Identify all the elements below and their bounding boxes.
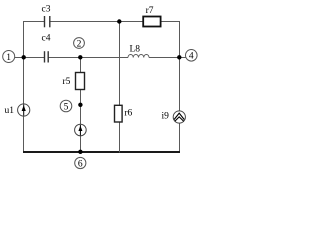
wire bottom rail xyxy=(23,151,180,153)
svg-text:r6: r6 xyxy=(124,108,132,118)
voltage source 2 (between node5 and node6) xyxy=(75,124,87,136)
wire r5 branch upper xyxy=(80,58,82,73)
svg-text:5: 5 xyxy=(64,102,69,112)
node B junction dot at node2 xyxy=(78,55,82,59)
node A junction dot at node1 rail xyxy=(22,55,26,59)
resistor R7 xyxy=(143,6,160,27)
wire r5 branch middle xyxy=(80,90,82,125)
capacitor C3 xyxy=(42,5,51,28)
node 2 xyxy=(74,38,85,50)
node 5 xyxy=(60,100,72,112)
capacitor C4 xyxy=(42,34,51,63)
svg-text:c4: c4 xyxy=(42,34,51,44)
node 4 xyxy=(186,50,198,62)
svg-text:4: 4 xyxy=(189,52,194,62)
wire r5 branch lower xyxy=(80,136,82,153)
wire left rail upper xyxy=(23,21,25,104)
wire main line L8 to node4 xyxy=(149,57,186,59)
svg-text:1: 1 xyxy=(6,53,11,63)
wire left rail lower xyxy=(23,116,25,153)
node E junction dot at node5 xyxy=(78,103,82,107)
resistor R5 xyxy=(63,73,85,90)
wire top branch r7 to right corner xyxy=(161,21,180,23)
wire top branch left of c3 xyxy=(23,21,45,23)
svg-text:6: 6 xyxy=(78,159,83,169)
svg-text:L8: L8 xyxy=(130,44,141,54)
svg-text:r5: r5 xyxy=(63,77,71,87)
wire main line left segment node1 to c4 xyxy=(15,57,45,59)
inductor L8 xyxy=(128,44,149,57)
node C junction dot top branch xyxy=(117,19,121,23)
wire top branch c3 to r7 xyxy=(50,21,143,23)
node F junction dot at node6 xyxy=(78,150,82,154)
node 6 xyxy=(75,157,86,169)
node D junction dot at node4 xyxy=(177,55,181,59)
wire r6 branch upper xyxy=(119,22,121,106)
svg-text:u1: u1 xyxy=(5,106,15,116)
node 1 xyxy=(3,51,15,63)
svg-text:i9: i9 xyxy=(162,111,170,121)
current source I9 xyxy=(162,111,186,123)
wire r6 branch lower xyxy=(119,122,121,153)
svg-text:c3: c3 xyxy=(42,5,51,15)
resistor R6 xyxy=(115,105,133,122)
svg-text:2: 2 xyxy=(77,39,82,49)
wire right rail lower xyxy=(179,123,181,153)
svg-text:r7: r7 xyxy=(146,6,154,16)
wire main line c4 to L8 xyxy=(48,57,128,59)
voltage source U1 xyxy=(5,104,30,116)
wire right rail upper xyxy=(179,21,181,111)
